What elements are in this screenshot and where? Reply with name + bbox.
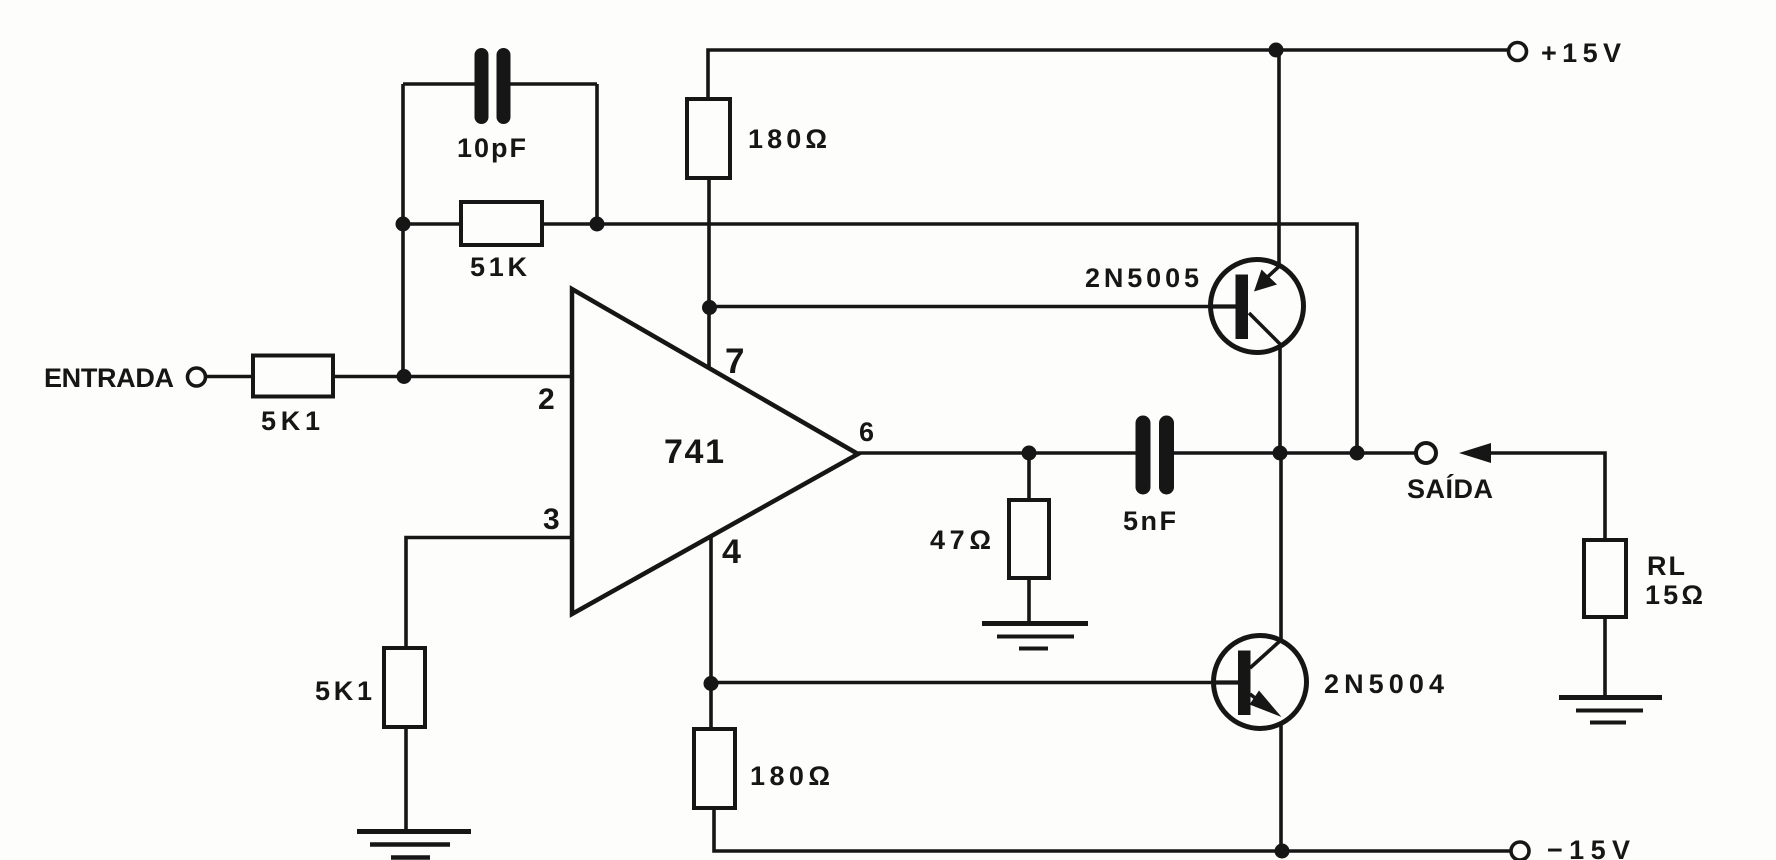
resistor 180ohm bottom [694, 729, 735, 808]
wire feedback right vertical [595, 84, 599, 224]
node pin4 / Q2 base junction [704, 676, 719, 691]
node feedback tap on output [1350, 446, 1365, 461]
wire 47ohm bottom [1027, 578, 1031, 624]
ground under R2 [357, 832, 471, 858]
wire 51K right to feedback corner [542, 224, 1357, 453]
ground under RL [1559, 698, 1662, 723]
wire Q2 emitter to -15V [1279, 723, 1283, 851]
node 47ohm tap [1022, 446, 1037, 461]
wire feedback left vertical [401, 84, 405, 377]
wire 47ohm top [1027, 453, 1031, 501]
wire pin7 vertical [707, 178, 711, 371]
wire R2 to ground [404, 727, 408, 832]
node top rail / Q1 collector junction [1269, 43, 1284, 58]
resistor R2 5K1 to ground [384, 648, 425, 727]
terminal ENTRADA [188, 368, 206, 386]
wire output right of C2 [1166, 451, 1416, 455]
node Q1/Q2 emitter-collector junction on output [1273, 446, 1288, 461]
terminal +15V [1509, 43, 1527, 61]
svg-text:180Ω: 180Ω [750, 761, 830, 791]
wire -15V bottom rail [714, 808, 1511, 851]
svg-text:5nF: 5nF [1123, 506, 1176, 536]
svg-text:47Ω: 47Ω [930, 525, 991, 555]
wire +15V top rail [708, 50, 1508, 101]
resistor RL 15ohm [1584, 540, 1626, 617]
wire Q1 base [709, 305, 1212, 309]
wire Q2 base [711, 681, 1215, 685]
wire Q2 collector to output [1279, 453, 1283, 641]
svg-text:5K1: 5K1 [261, 406, 320, 436]
wire capacitor top right [502, 82, 597, 86]
svg-text:741: 741 [664, 433, 724, 471]
capacitor C1 10pF plates [475, 55, 489, 117]
svg-text:5K1: 5K1 [315, 676, 372, 706]
svg-text:6: 6 [859, 417, 874, 447]
wire RL to ground [1603, 617, 1607, 698]
capacitor C2 5nF plates [1136, 423, 1151, 487]
ground under 47ohm [982, 624, 1088, 649]
terminal SAIDA [1416, 443, 1436, 463]
resistor 47ohm [1009, 500, 1049, 578]
wire pin6 output left of C2 [858, 451, 1143, 455]
svg-text:51K: 51K [470, 252, 528, 282]
svg-text:4: 4 [722, 533, 741, 571]
svg-text:SAÍDA: SAÍDA [1407, 473, 1493, 504]
svg-text:15Ω: 15Ω [1645, 580, 1703, 610]
terminal -15V [1511, 842, 1529, 860]
wire R1 to pin2 [333, 375, 572, 379]
arrow into output [1459, 443, 1491, 463]
wire capacitor top left [403, 82, 483, 86]
svg-text:ENTRADA: ENTRADA [44, 363, 174, 393]
transistor Q2 2N5004 [1212, 636, 1307, 729]
svg-text:RL: RL [1647, 551, 1685, 581]
resistor 180ohm top [687, 99, 730, 178]
wire 51K left [403, 222, 461, 226]
svg-text:10pF: 10pF [457, 133, 526, 163]
wire pin3 [406, 538, 572, 649]
op-amp U1 741 [572, 289, 858, 614]
svg-text:2: 2 [538, 383, 555, 416]
wire pin4 vertical [709, 536, 713, 729]
wire Q1 emitter to output [1278, 346, 1282, 453]
wire Q1 collector to +15V [1277, 50, 1281, 266]
resistor 51K [461, 202, 542, 245]
resistor R1 5K1 input [253, 356, 333, 397]
node feedback right [590, 217, 605, 232]
wire input to R1 [206, 375, 254, 379]
svg-text:180Ω: 180Ω [748, 124, 827, 154]
wire arrow to RL [1489, 453, 1605, 540]
svg-text:7: 7 [725, 342, 744, 381]
transistor Q1 2N5005 [1209, 260, 1304, 353]
node feedback left [396, 217, 411, 232]
node pin7 / Q1 base junction [702, 300, 717, 315]
node bottom rail / Q2 emitter junction [1275, 844, 1290, 859]
svg-text:3: 3 [543, 503, 560, 536]
node input junction [397, 369, 412, 384]
